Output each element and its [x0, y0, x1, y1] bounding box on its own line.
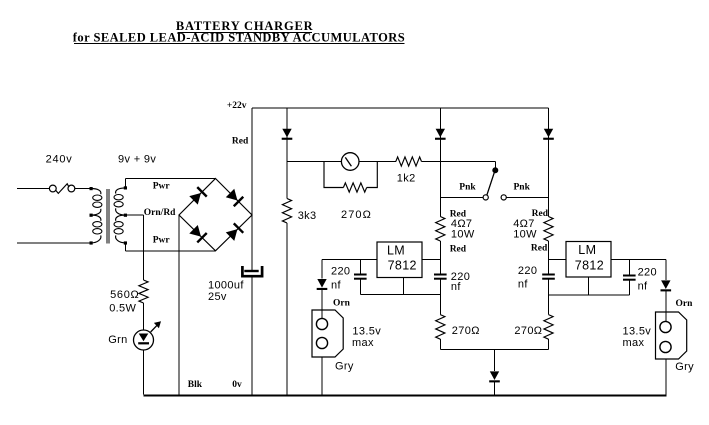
- bridge rectifier diamond: [179, 179, 252, 251]
- wire connector to 0v left: [321, 357, 323, 395]
- svg-text:Red: Red: [531, 244, 548, 254]
- transformer core: [106, 189, 108, 244]
- svg-text:220: 220: [331, 266, 350, 278]
- wire ground join: [440, 349, 548, 351]
- svg-text:13.5v: 13.5v: [352, 325, 381, 337]
- wire secondary bottom to bridge: [124, 243, 126, 251]
- connector J1 left: [312, 310, 343, 357]
- wire cap to rail left: [439, 280, 441, 315]
- resistor 4ohm7 left: [436, 217, 445, 241]
- meter M1: [341, 153, 359, 171]
- svg-text:nf: nf: [518, 278, 528, 290]
- switch contact right: [501, 195, 506, 200]
- svg-text:7812: 7812: [388, 259, 417, 273]
- resistor 1k2: [396, 157, 422, 166]
- transformer primary terminals: [90, 187, 93, 190]
- wire resistor to LED: [143, 303, 145, 330]
- svg-text:0v: 0v: [232, 380, 242, 390]
- diode D7: [435, 129, 446, 140]
- wire output down left: [321, 260, 323, 279]
- wire branch down at 287: [286, 108, 288, 199]
- svg-text:270Ω: 270Ω: [452, 325, 480, 337]
- connector J2 right: [656, 312, 687, 359]
- wire 3k3 to 0v: [286, 223, 288, 395]
- svg-text:10W: 10W: [513, 229, 537, 241]
- switch pivot: [494, 162, 496, 168]
- svg-text:Pwr: Pwr: [153, 182, 171, 192]
- bridge diode D1 top-left: [189, 186, 208, 205]
- wire bridge negative down: [178, 215, 180, 395]
- wire cap to 0v: [251, 278, 253, 395]
- transformer primary winding lower: [91, 215, 101, 221]
- wire input node to regulator right: [549, 259, 567, 261]
- wire 270ohm to join right: [548, 339, 550, 349]
- regulator U2 LM7812 box: [566, 242, 611, 278]
- capacitor C2 220nf input left: [434, 274, 447, 276]
- svg-text:9v + 9v: 9v + 9v: [118, 154, 156, 166]
- wire junction to meter: [287, 161, 341, 163]
- resistor 270ohm left: [436, 315, 445, 340]
- svg-text:nf: nf: [638, 281, 648, 293]
- svg-text:max: max: [623, 337, 645, 349]
- wire bridge positive up: [251, 108, 253, 215]
- wire branch down at 440: [439, 108, 441, 217]
- capacitor C5 220nf output right: [628, 260, 630, 275]
- svg-text:7812: 7812: [575, 258, 604, 272]
- meter shunt loop: [324, 162, 343, 188]
- resistor 4ohm7 right: [544, 217, 553, 241]
- svg-text:3k3: 3k3: [298, 210, 317, 222]
- svg-text:560Ω: 560Ω: [110, 289, 139, 301]
- wire output down right: [665, 260, 667, 281]
- svg-text:240v: 240v: [46, 154, 73, 166]
- svg-text:13.5v: 13.5v: [623, 325, 652, 337]
- wire mains live: [17, 188, 49, 190]
- svg-text:Blk: Blk: [188, 380, 203, 390]
- wire meter to 1k2: [359, 161, 396, 163]
- bridge diode D2 top-right: [225, 188, 244, 207]
- diode D8 output left: [317, 279, 328, 290]
- svg-text:25v: 25v: [208, 291, 227, 303]
- capacitor C1 1000uf: [244, 270, 258, 272]
- svg-text:Red: Red: [232, 137, 249, 147]
- wire bridge positive down to cap: [251, 215, 253, 270]
- svg-text:nf: nf: [451, 281, 461, 293]
- svg-text:for SEALED LEAD-ACID STANDBY A: for SEALED LEAD-ACID STANDBY ACCUMULATOR…: [73, 31, 405, 45]
- resistor 270ohm right: [544, 315, 553, 340]
- ground rail left: [360, 294, 440, 296]
- wire mains neutral: [17, 242, 91, 244]
- wire diode to connector right: [665, 291, 667, 321]
- svg-text:Orn/Rd: Orn/Rd: [144, 208, 176, 218]
- wire LED to 0v: [143, 350, 145, 395]
- transformer primary winding upper: [91, 189, 101, 195]
- svg-text:+22v: +22v: [227, 101, 247, 111]
- svg-text:Orn: Orn: [333, 299, 351, 309]
- svg-text:270Ω: 270Ω: [341, 209, 372, 221]
- wire left contact: [440, 196, 483, 198]
- resistor 3k3: [282, 199, 291, 223]
- capacitor C4 220nf input right: [542, 274, 555, 276]
- wire 1k2 to switch: [422, 161, 496, 163]
- regulator U2 ground pin: [588, 277, 590, 295]
- svg-text:270Ω: 270Ω: [514, 325, 542, 337]
- ground rail right: [549, 294, 630, 296]
- wire branch down at 548: [548, 108, 550, 217]
- LED D5 green: [134, 330, 154, 350]
- wire fuse to transformer: [75, 188, 91, 190]
- switch lever: [487, 173, 494, 196]
- svg-text:Gry: Gry: [675, 361, 694, 373]
- regulator U1 LM7812 box: [377, 242, 422, 278]
- wire centre tap: [125, 214, 143, 216]
- wire cap to rail right: [548, 280, 550, 315]
- switch contact left: [483, 195, 488, 200]
- wire right contact: [506, 196, 548, 198]
- wire diode to 0v: [494, 382, 496, 395]
- diode D6: [282, 129, 293, 140]
- wire input node to regulator: [422, 259, 441, 261]
- wire +22v bus: [252, 107, 549, 109]
- wire 4ohm7 to input node right: [548, 241, 550, 274]
- regulator U1 ground pin: [403, 278, 405, 295]
- wire connector to 0v right: [665, 359, 667, 395]
- wire 4ohm7 to input node: [439, 241, 441, 274]
- bridge diode D3 bottom-left: [189, 224, 208, 243]
- wire regulator output right: [611, 259, 666, 261]
- bridge diode D4 bottom-right: [225, 223, 244, 242]
- resistor 560ohm: [139, 280, 148, 303]
- svg-text:Gry: Gry: [335, 361, 354, 373]
- transformer secondary winding upper: [116, 188, 126, 194]
- svg-text:Pwr: Pwr: [153, 236, 171, 246]
- wire join to diode: [494, 350, 496, 371]
- wire diode to connector left: [321, 290, 323, 319]
- svg-text:nf: nf: [331, 280, 341, 292]
- capacitor C3 220nf output left: [359, 260, 361, 274]
- wire regulator output left: [322, 259, 377, 261]
- svg-text:Red: Red: [450, 245, 467, 255]
- svg-text:LM: LM: [578, 243, 596, 257]
- diode D10 ground lift: [489, 371, 500, 382]
- transformer secondary terminals: [124, 186, 127, 189]
- wire secondary top to bridge: [124, 179, 126, 188]
- wire 270ohm to join: [439, 339, 441, 349]
- diode D9: [543, 129, 554, 140]
- svg-text:1000uf: 1000uf: [208, 280, 244, 292]
- fuse F1: [49, 185, 56, 192]
- diode D11 output right: [661, 280, 672, 291]
- svg-text:Grn: Grn: [108, 334, 127, 346]
- svg-text:1k2: 1k2: [397, 173, 416, 185]
- transformer secondary winding lower: [116, 215, 126, 221]
- svg-text:220: 220: [638, 267, 657, 279]
- svg-text:LM: LM: [387, 243, 405, 257]
- svg-text:220: 220: [518, 265, 537, 277]
- svg-text:Orn: Orn: [676, 299, 694, 309]
- svg-text:max: max: [352, 337, 374, 349]
- wire 0v bus: [144, 395, 667, 397]
- svg-text:10W: 10W: [451, 228, 475, 240]
- svg-text:Pnk: Pnk: [459, 182, 476, 192]
- svg-text:Pnk: Pnk: [514, 182, 531, 192]
- svg-text:0.5W: 0.5W: [109, 303, 136, 315]
